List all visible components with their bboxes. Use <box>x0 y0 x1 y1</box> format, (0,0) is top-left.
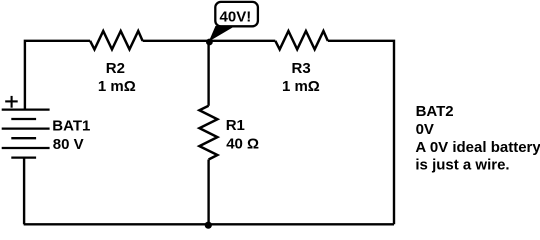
wire: battery bottom stub <box>23 158 25 225</box>
svg-text:BAT2: BAT2 <box>416 103 454 120</box>
battery plus sign <box>5 96 18 108</box>
wire: left rail and top rail to R2 <box>25 41 90 110</box>
svg-text:is just a wire.: is just a wire. <box>415 156 509 173</box>
svg-text:40V!: 40V! <box>220 9 252 26</box>
wire: top rail between R2 and R3 <box>143 40 276 42</box>
svg-text:R1: R1 <box>226 117 245 134</box>
resistor R2 <box>90 31 143 49</box>
callout tail <box>209 26 234 42</box>
callout bubble 40V! <box>215 2 258 26</box>
svg-text:R3: R3 <box>292 60 311 77</box>
svg-text:1 mΩ: 1 mΩ <box>282 78 320 95</box>
svg-text:A 0V ideal battery: A 0V ideal battery <box>415 139 540 156</box>
wire: middle branch from node to R1 <box>207 41 209 106</box>
svg-text:BAT1: BAT1 <box>52 118 90 135</box>
svg-text:R2: R2 <box>106 60 125 77</box>
wire: bottom rail <box>24 223 394 225</box>
svg-text:1 mΩ: 1 mΩ <box>98 78 136 95</box>
svg-text:80 V: 80 V <box>53 136 84 153</box>
resistor R1 <box>199 106 217 160</box>
resistor R3 <box>275 31 328 49</box>
svg-text:0V: 0V <box>416 121 434 138</box>
wire: middle branch from R1 to bottom rail <box>207 160 209 225</box>
svg-text:40 Ω: 40 Ω <box>226 136 259 153</box>
node: top junction dot <box>206 39 213 46</box>
node: bottom junction dot <box>205 222 212 229</box>
wire: top rail right segment and right rail <box>328 41 394 224</box>
battery BAT1 plates <box>2 110 50 158</box>
